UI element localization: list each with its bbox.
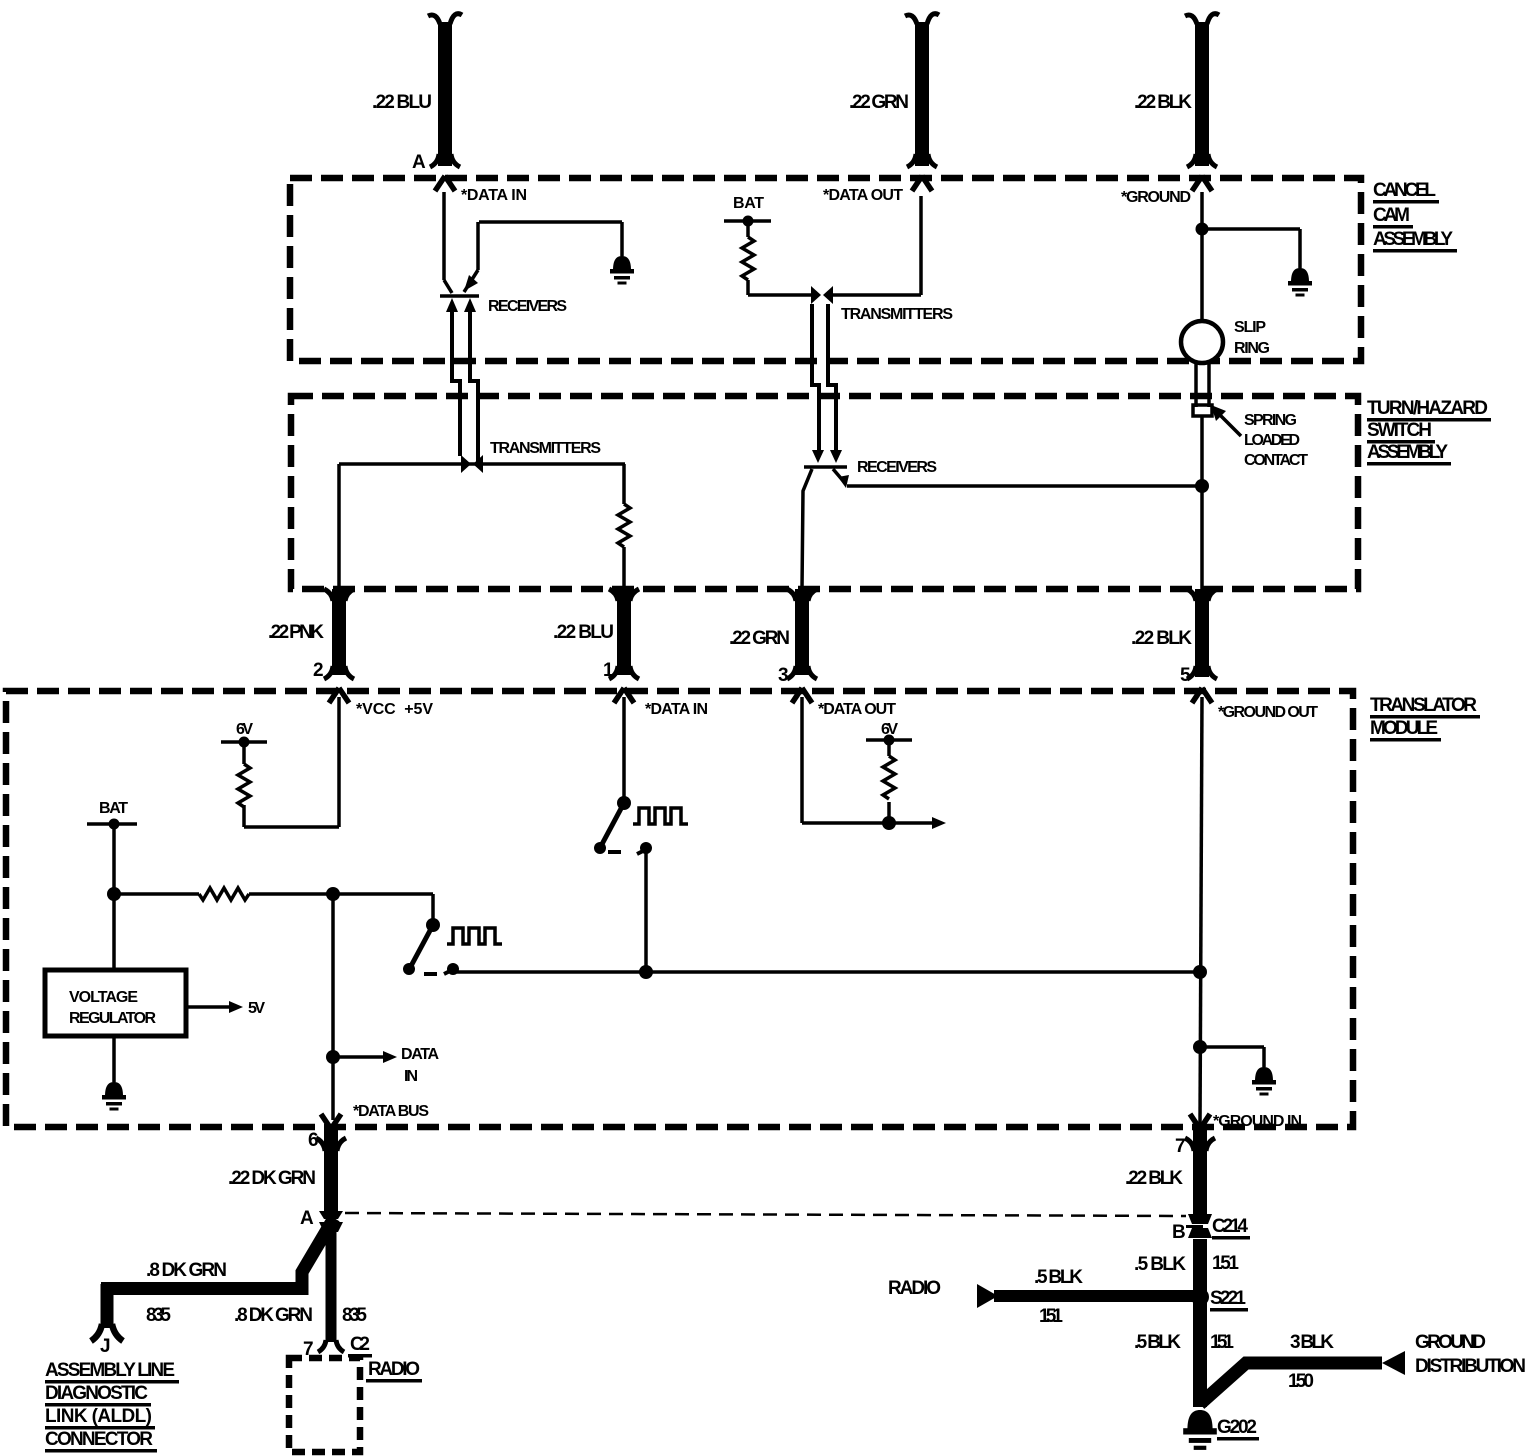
svg-text:ASSEMBLY: ASSEMBLY — [1373, 229, 1453, 250]
svg-text:*DATA OUT: *DATA OUT — [823, 187, 903, 204]
svg-text:CONNECTOR: CONNECTOR — [45, 1429, 153, 1450]
svg-text:.22 GRN: .22 GRN — [729, 628, 790, 649]
svg-text:2: 2 — [313, 660, 324, 681]
svg-text:S221: S221 — [1210, 1288, 1246, 1309]
svg-text:*GROUND IN: *GROUND IN — [1213, 1113, 1302, 1130]
svg-text:IN: IN — [404, 1068, 418, 1085]
svg-text:SLIP: SLIP — [1234, 319, 1266, 336]
svg-text:151: 151 — [1212, 1253, 1239, 1274]
svg-text:151: 151 — [1210, 1332, 1234, 1353]
svg-text:5V: 5V — [248, 1000, 265, 1017]
svg-text:J: J — [100, 1336, 111, 1357]
svg-text:LINK (ALDL): LINK (ALDL) — [45, 1406, 152, 1427]
svg-text:.22 GRN: .22 GRN — [849, 92, 909, 113]
svg-text:DIAGNOSTIC: DIAGNOSTIC — [45, 1383, 148, 1404]
svg-text:RADIO: RADIO — [888, 1278, 941, 1299]
svg-text:*DATA BUS: *DATA BUS — [353, 1103, 429, 1120]
svg-text:RECEIVERS: RECEIVERS — [857, 459, 937, 476]
svg-text:.5 BLK: .5 BLK — [1034, 1267, 1083, 1288]
svg-text:C214: C214 — [1212, 1216, 1248, 1237]
svg-text:G202: G202 — [1217, 1417, 1257, 1438]
svg-text:1: 1 — [603, 660, 614, 681]
svg-text:C2: C2 — [350, 1334, 370, 1355]
svg-text:BAT: BAT — [99, 800, 128, 817]
svg-text:RADIO: RADIO — [368, 1359, 420, 1380]
svg-text:RING: RING — [1234, 340, 1270, 357]
svg-text:.22 BLU: .22 BLU — [372, 92, 432, 113]
svg-text:.22 DK GRN: .22 DK GRN — [228, 1168, 316, 1189]
svg-text:.22 PNK: .22 PNK — [268, 622, 324, 643]
svg-text:7: 7 — [303, 1339, 314, 1360]
svg-text:A: A — [300, 1208, 314, 1229]
svg-text:*DATA IN: *DATA IN — [645, 701, 708, 718]
svg-text:TURN/HAZARD: TURN/HAZARD — [1367, 398, 1488, 419]
svg-text:DATA: DATA — [401, 1046, 439, 1063]
svg-text:.5 BLK: .5 BLK — [1134, 1332, 1181, 1353]
svg-text:ASSEMBLY: ASSEMBLY — [1367, 442, 1448, 463]
svg-text:835: 835 — [342, 1305, 367, 1326]
svg-text:6: 6 — [308, 1130, 319, 1151]
svg-text:6V: 6V — [881, 721, 898, 738]
svg-text:BAT: BAT — [733, 195, 764, 212]
svg-text:VOLTAGE: VOLTAGE — [69, 989, 138, 1006]
svg-text:*VCC +5V: *VCC +5V — [356, 701, 433, 718]
svg-text:A: A — [412, 152, 426, 173]
svg-text:.22 BLU: .22 BLU — [553, 622, 614, 643]
svg-text:.22 BLK: .22 BLK — [1134, 92, 1192, 113]
svg-text:7: 7 — [1175, 1136, 1186, 1157]
svg-text:*DATA IN: *DATA IN — [461, 187, 527, 204]
svg-text:6V: 6V — [236, 721, 253, 738]
svg-text:CONTACT: CONTACT — [1244, 452, 1308, 469]
svg-text:MODULE: MODULE — [1370, 718, 1438, 739]
svg-text:835: 835 — [146, 1305, 171, 1326]
svg-text:CANCEL: CANCEL — [1373, 180, 1436, 201]
svg-text:TRANSMITTERS: TRANSMITTERS — [490, 440, 601, 457]
svg-text:TRANSLATOR: TRANSLATOR — [1370, 695, 1477, 716]
svg-text:GROUND: GROUND — [1415, 1332, 1486, 1353]
svg-text:ASSEMBLY LINE: ASSEMBLY LINE — [45, 1360, 175, 1381]
svg-text:150: 150 — [1288, 1371, 1314, 1392]
svg-text:TRANSMITTERS: TRANSMITTERS — [841, 306, 953, 323]
svg-text:*DATA OUT: *DATA OUT — [818, 701, 896, 718]
svg-text:.8 DK GRN: .8 DK GRN — [234, 1305, 313, 1326]
svg-text:.5 BLK: .5 BLK — [1134, 1254, 1186, 1275]
svg-text:RECEIVERS: RECEIVERS — [488, 298, 567, 315]
svg-text:B: B — [1172, 1222, 1186, 1243]
svg-text:REGULATOR: REGULATOR — [69, 1010, 156, 1027]
svg-text:5: 5 — [1180, 665, 1191, 686]
svg-text:DISTRIBUTION: DISTRIBUTION — [1415, 1356, 1526, 1377]
svg-text:3 BLK: 3 BLK — [1290, 1332, 1334, 1353]
svg-text:CAM: CAM — [1373, 205, 1410, 226]
svg-text:*GROUND OUT: *GROUND OUT — [1218, 704, 1318, 721]
svg-text:*GROUND: *GROUND — [1121, 189, 1191, 206]
svg-text:SWITCH: SWITCH — [1367, 420, 1432, 441]
svg-text:.22 BLK: .22 BLK — [1125, 1168, 1183, 1189]
svg-text:.22 BLK: .22 BLK — [1131, 628, 1192, 649]
svg-text:LOADED: LOADED — [1244, 432, 1300, 449]
svg-text:3: 3 — [778, 665, 789, 686]
svg-text:151: 151 — [1039, 1306, 1063, 1327]
svg-text:SPRING: SPRING — [1244, 412, 1297, 429]
svg-text:.8 DK GRN: .8 DK GRN — [146, 1260, 227, 1281]
